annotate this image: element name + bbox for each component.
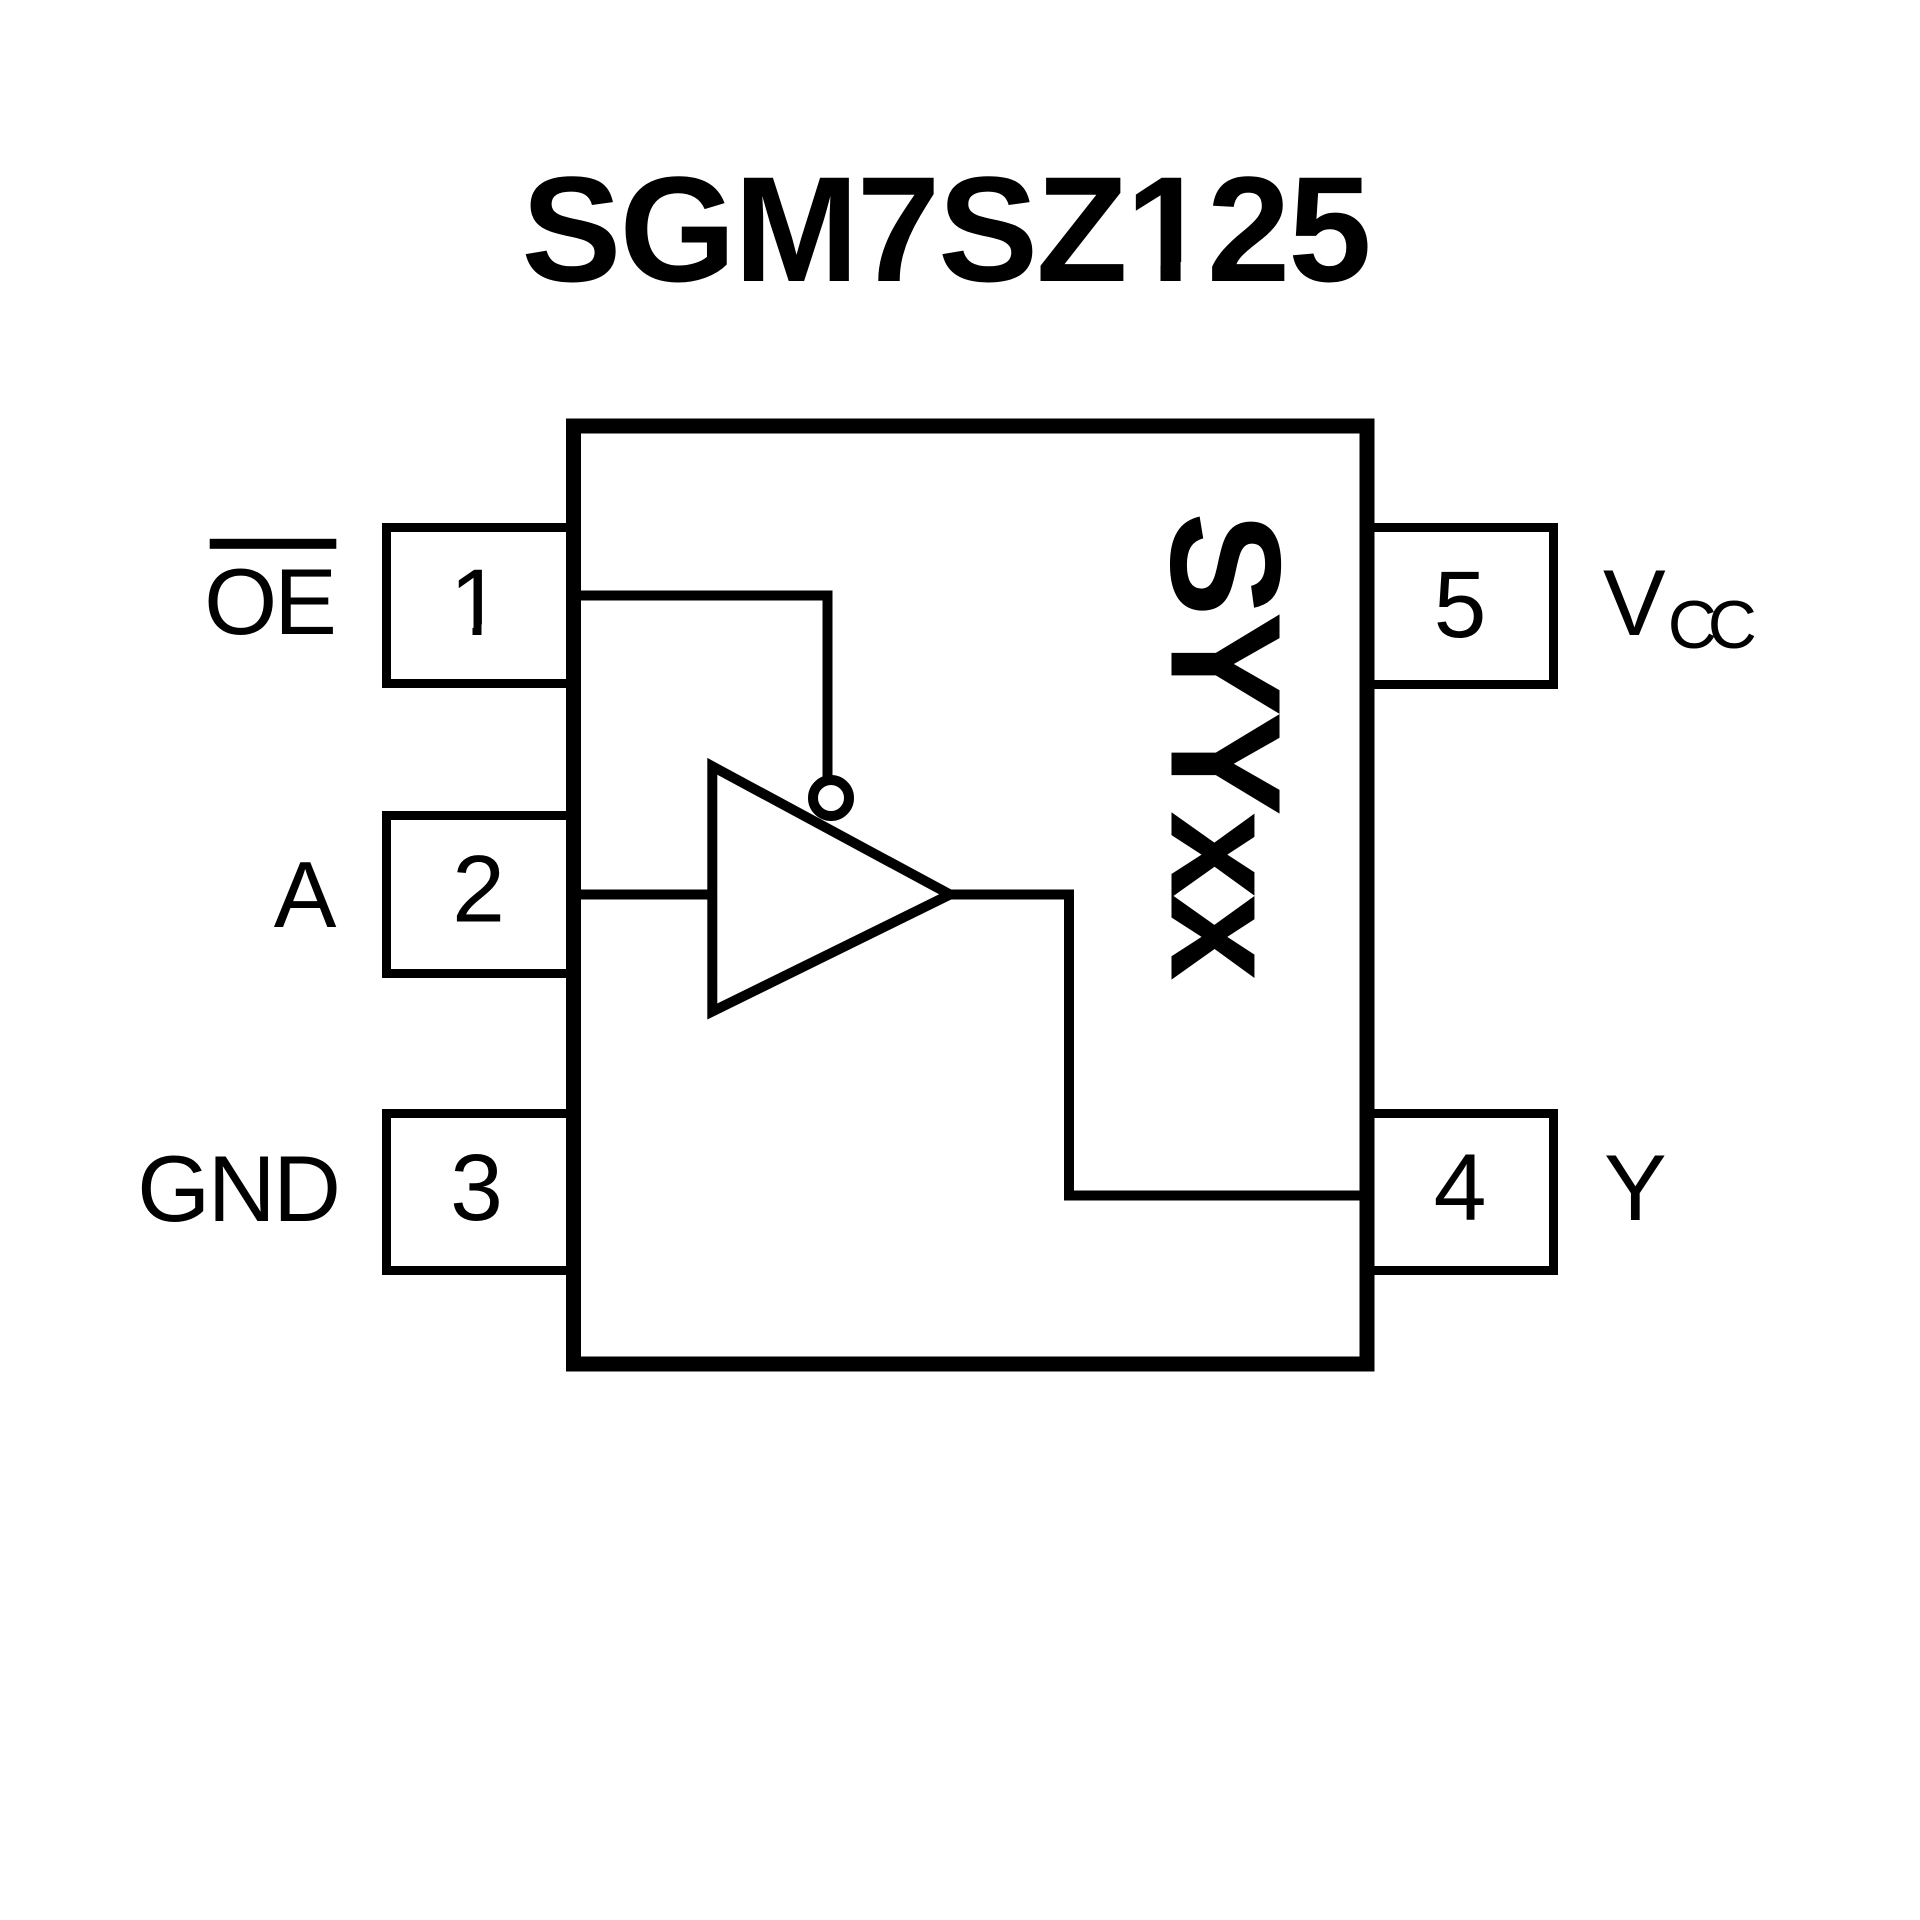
svg-text:SGM7SZ125: SGM7SZ125 (521, 145, 1369, 313)
svg-text:1: 1 (450, 550, 503, 656)
svg-text:GND: GND (137, 1136, 338, 1241)
IC body (574, 426, 1368, 1364)
pin 3 box (387, 1114, 576, 1271)
wire pin1 to bubble (575, 596, 828, 778)
svg-text:2: 2 (452, 837, 505, 943)
svg-text:SYYxx: SYYxx (1138, 512, 1313, 980)
OE overline (210, 539, 337, 549)
pin 5 box (1365, 528, 1554, 685)
wire pin2 to buffer input (575, 890, 716, 900)
svg-text:4: 4 (1434, 1135, 1487, 1241)
pin 4 box (1365, 1114, 1554, 1271)
svg-text:A: A (274, 842, 337, 947)
svg-text:OE: OE (204, 549, 334, 654)
wire buffer output to pin4 (948, 895, 1367, 1196)
svg-text:5: 5 (1434, 552, 1487, 658)
pin 1 box (387, 528, 576, 684)
OE inverting bubble (813, 780, 849, 816)
buffer U1 triangle (712, 766, 950, 1011)
svg-text:3: 3 (450, 1135, 503, 1241)
pin 2 box (387, 816, 576, 974)
svg-text:Y: Y (1604, 1135, 1667, 1240)
